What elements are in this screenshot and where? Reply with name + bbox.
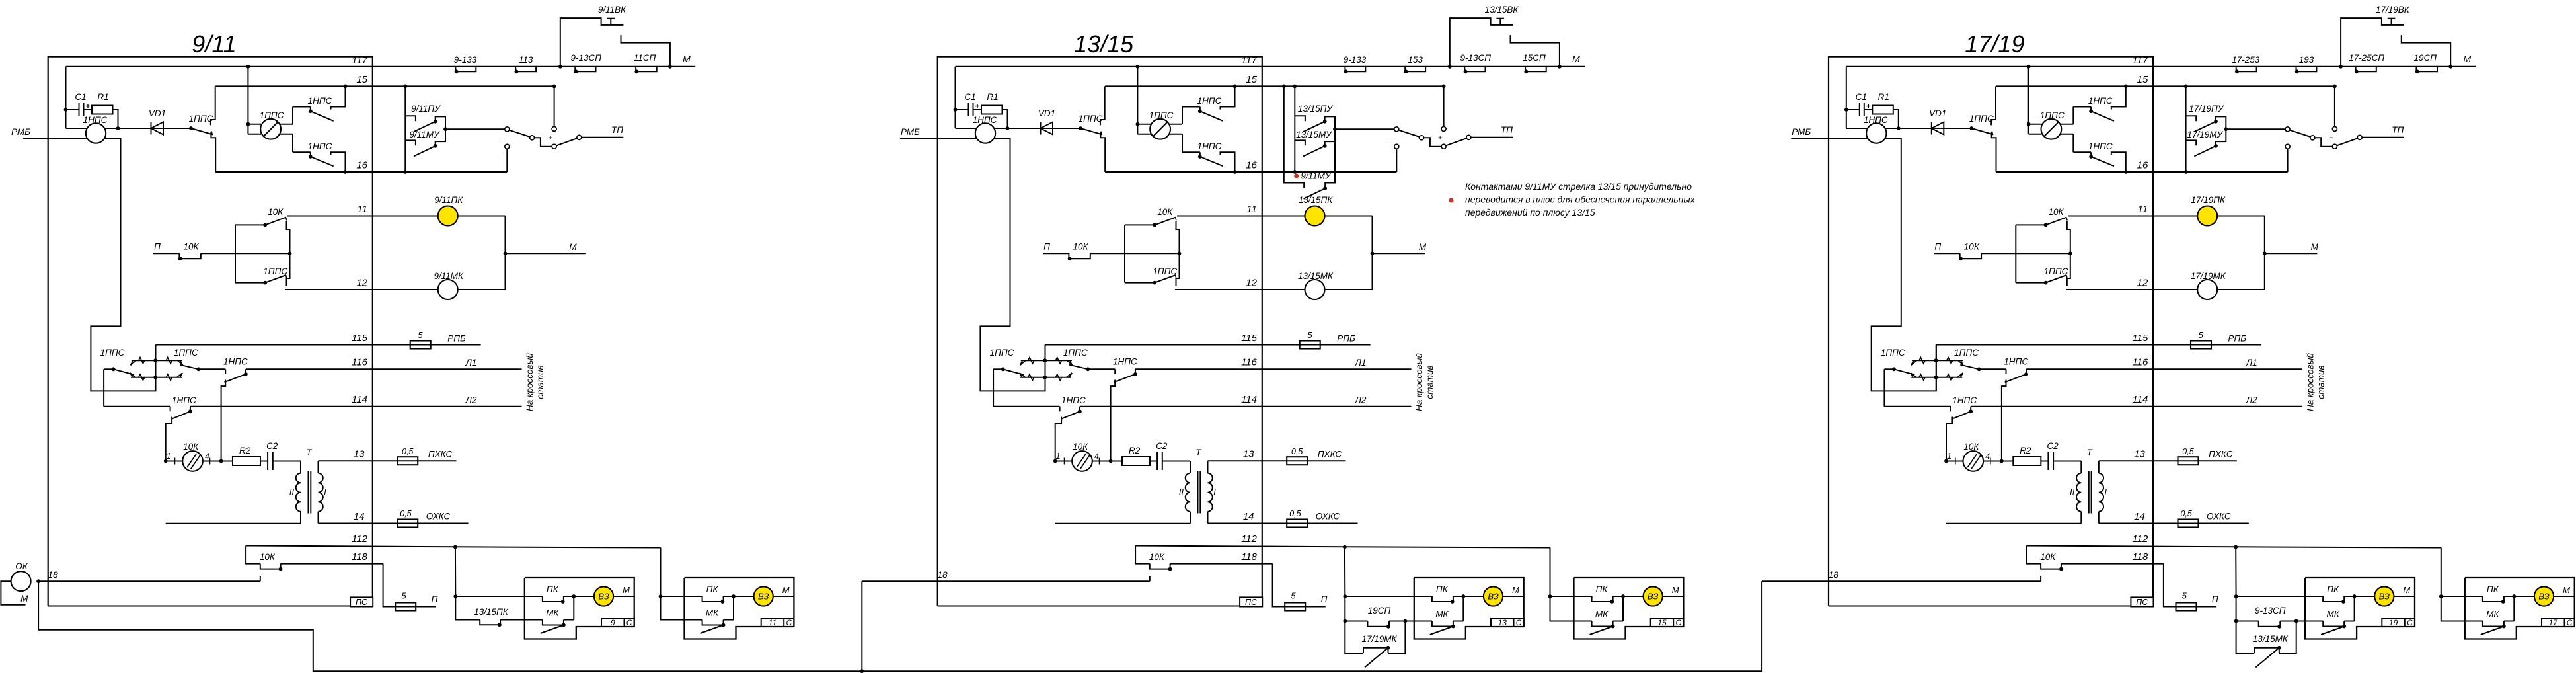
svg-text:15: 15	[1657, 618, 1667, 627]
svg-text:118: 118	[2132, 551, 2148, 563]
wire VK branch 13/15	[1450, 18, 1513, 67]
relay block В3 15 13/15 coil	[1623, 596, 1644, 597]
contact 1ППС crossing lower 13/15	[1020, 377, 1071, 378]
relay 13/15МК 13/15	[1305, 280, 1325, 299]
svg-text:С1: С1	[75, 92, 86, 102]
svg-text:9/11: 9/11	[192, 30, 236, 58]
svg-text:114: 114	[2132, 394, 2148, 405]
switch blade plus 9/11	[556, 138, 577, 145]
resistor R1 13/15	[981, 106, 1003, 114]
wire VK branch 2 17/19	[2402, 35, 2450, 67]
svg-text:0,5: 0,5	[400, 509, 411, 518]
svg-text:М: М	[20, 594, 28, 604]
svg-text:12: 12	[2137, 278, 2148, 289]
svg-text:112: 112	[2132, 534, 2148, 545]
contact 9/11МУ forced	[1295, 183, 1304, 188]
contact 1НПС lower 17/19	[2073, 151, 2091, 153]
relay block В3 15 13/15 ПК contact	[1574, 596, 1592, 597]
svg-text:РПБ: РПБ	[447, 334, 466, 344]
contact 9-13СП 13/15	[1464, 67, 1485, 72]
relay 17/19МК 17/19	[2197, 280, 2217, 299]
wire primary bottom 13/15	[1055, 523, 1190, 524]
svg-text:РМБ: РМБ	[901, 127, 920, 137]
wire bottom interconnect	[38, 581, 1762, 671]
fuse 0,5 ПХКС 9/11	[397, 457, 418, 465]
wire line 118 17/19	[2061, 563, 2164, 565]
wire box2 МК feed 17/19	[2441, 596, 2465, 621]
wire VK branch 2 13/15	[1511, 35, 1560, 67]
svg-text:9-133: 9-133	[1344, 55, 1367, 65]
contact 1ППС crossing upper 9/11	[132, 360, 182, 361]
svg-text:1НПС: 1НПС	[1197, 141, 1222, 151]
diode VD1 17/19	[1899, 128, 1972, 129]
svg-text:I: I	[1213, 487, 1216, 496]
contact 1НПС lower 13/15	[1182, 151, 1200, 153]
svg-text:1ППС: 1ППС	[1063, 348, 1088, 358]
svg-text:10К: 10К	[183, 442, 199, 452]
svg-text:М: М	[782, 585, 790, 595]
svg-text:R1: R1	[97, 92, 108, 102]
svg-text:R2: R2	[1129, 446, 1141, 455]
fuse 5 РПБ 17/19	[2191, 341, 2211, 349]
relay block В3 11 9/11 МК contact	[685, 619, 702, 621]
svg-text:VD1: VD1	[1929, 108, 1946, 118]
relay block В3 13 13/15 ПК contact	[1414, 596, 1432, 597]
relay 9/11МК 9/11	[438, 280, 458, 299]
contact 1НПС on line 114 9/11	[170, 407, 171, 412]
contact 1ППС crossing upper 13/15	[1021, 360, 1072, 361]
svg-text:13/15ПК: 13/15ПК	[1299, 195, 1334, 205]
contact 193 17/19	[2296, 67, 2317, 72]
svg-text:1ППС: 1ППС	[189, 114, 213, 124]
svg-text:17/19МУ: 17/19МУ	[2187, 130, 2223, 139]
wire motor line 17/19	[1946, 461, 1963, 462]
svg-text:193: 193	[2299, 55, 2314, 65]
svg-text:12: 12	[356, 278, 367, 289]
svg-text:9-13СП: 9-13СП	[2255, 606, 2286, 615]
contact 10К to line11 9/11	[235, 224, 265, 225]
svg-text:II: II	[1179, 487, 1184, 496]
svg-text:М: М	[1572, 54, 1580, 64]
svg-text:ВЗ: ВЗ	[758, 592, 769, 602]
contact 1НПС on line 116 9/11	[225, 369, 226, 374]
wire line 18 13/15	[862, 580, 1150, 582]
wire zigzag column 13/15	[1045, 345, 1046, 391]
wire ПУ-МУ common 17/19	[2216, 116, 2226, 145]
wire left pivot 9/11	[104, 368, 114, 370]
fuse 5 П 17/19	[2176, 603, 2197, 611]
svg-text:15: 15	[2137, 74, 2148, 85]
svg-text:ПС: ПС	[1245, 598, 1258, 607]
svg-text:15: 15	[1246, 74, 1257, 85]
svg-text:1НПС: 1НПС	[2088, 96, 2113, 106]
svg-text:П: П	[1043, 242, 1050, 252]
svg-text:М: М	[569, 242, 577, 252]
wire extra МУ riser	[1284, 86, 1295, 182]
svg-text:ОХКС: ОХКС	[2207, 512, 2231, 522]
svg-text:9/11МУ: 9/11МУ	[409, 130, 440, 139]
wire МК feed 9/11	[455, 596, 480, 620]
wire M-return 17/19	[1829, 606, 2131, 607]
wire to minus terminal 9/11	[445, 128, 505, 130]
svg-text:МК: МК	[2326, 610, 2339, 619]
wire ПК feed 13/15	[1345, 596, 1414, 597]
wire minus lower 13/15	[1396, 149, 1397, 172]
wire line 115 9/11	[156, 344, 481, 346]
svg-text:переводится в плюс для обеспеч: переводится в плюс для обеспечения парал…	[1465, 194, 1696, 205]
motor 10К 17/19	[1963, 451, 1984, 471]
wire plus riser 9/11	[554, 86, 555, 126]
svg-text:–: –	[500, 132, 506, 142]
svg-text:13/15МУ: 13/15МУ	[1296, 130, 1332, 139]
wire line 11 9/11	[287, 216, 506, 217]
svg-text:9/11МК: 9/11МК	[434, 271, 464, 281]
node junction 18	[36, 579, 40, 583]
svg-text:10К: 10К	[1073, 242, 1089, 252]
terminal F 9/11	[577, 135, 582, 139]
svg-text:118: 118	[1241, 551, 1258, 563]
svg-text:17: 17	[2549, 618, 2559, 627]
svg-text:17/19ПУ: 17/19ПУ	[2189, 104, 2224, 114]
wire box feeder 17/19	[2235, 547, 2236, 596]
button 13/15ВК 13/15	[1497, 18, 1505, 19]
wire line 112 9/11	[246, 546, 660, 548]
wire line 118 13/15	[1170, 563, 1273, 565]
contact 153 13/15	[1405, 67, 1425, 72]
svg-text:11: 11	[2138, 204, 2148, 215]
terminal F 17/19	[2357, 135, 2362, 139]
relay 13/15ПК 13/15	[1305, 206, 1325, 226]
svg-text:116: 116	[2132, 357, 2148, 368]
contact 13/15МК 17/19	[2254, 648, 2279, 653]
wire frame 17/19	[1829, 57, 2153, 606]
svg-text:М: М	[2311, 242, 2319, 252]
svg-text:ПК: ПК	[706, 584, 719, 594]
svg-text:1ППС: 1ППС	[100, 348, 125, 358]
contact 9-133 9/11	[455, 67, 476, 72]
svg-text:10К: 10К	[2040, 552, 2056, 562]
wire zigzag column 9/11	[155, 345, 157, 391]
svg-text:1ППС: 1ППС	[1153, 266, 1177, 276]
svg-text:На кроссовый: На кроссовый	[1414, 353, 1424, 411]
wire VK branch 17/19	[2341, 18, 2404, 67]
svg-text:9/11ВК: 9/11ВК	[598, 5, 626, 15]
contact 1ППС to line12 17/19	[2016, 282, 2045, 284]
svg-text:1ППС: 1ППС	[1149, 110, 1174, 120]
wire right pivot 13/15	[1069, 365, 1088, 370]
svg-text:VD1: VD1	[149, 108, 166, 118]
svg-text:ВЗ: ВЗ	[598, 592, 609, 602]
relay block В3 9 9/11 ПК contact	[525, 596, 543, 597]
svg-text:16: 16	[1246, 160, 1257, 171]
svg-text:10К: 10К	[1157, 207, 1173, 217]
relay 9/11ПК 9/11	[438, 206, 458, 226]
contact 10К to line11 17/19	[2016, 224, 2045, 225]
svg-text:ВЗ: ВЗ	[1488, 592, 1498, 602]
svg-text:153: 153	[1408, 55, 1423, 65]
svg-text:П: П	[1321, 594, 1328, 604]
svg-text:10К: 10К	[2049, 207, 2065, 217]
svg-text:ПС: ПС	[2136, 598, 2148, 607]
transformer T 17/19	[2080, 461, 2082, 473]
svg-text:С: С	[786, 618, 792, 627]
wire line 14 17/19	[2099, 523, 2249, 524]
wire МК feed right 17/19	[2280, 621, 2305, 622]
wire C1 riser 17/19	[1846, 67, 1847, 128]
wire box2 МК feed 13/15	[1550, 596, 1574, 621]
contact 17/19МК 13/15	[1363, 648, 1388, 653]
svg-text:1ППС: 1ППС	[2044, 266, 2068, 276]
capacitor C2 17/19	[2041, 461, 2048, 462]
svg-text:I: I	[324, 487, 326, 496]
contact 10К on 118 9/11	[260, 564, 281, 569]
wire to minus terminal 17/19	[2226, 128, 2285, 130]
svg-text:1НПС: 1НПС	[308, 141, 332, 151]
svg-text:М: М	[2403, 585, 2410, 595]
capacitor C1 9/11	[79, 103, 80, 116]
svg-text:17-253: 17-253	[2232, 55, 2260, 65]
svg-text:1ППС: 1ППС	[260, 110, 284, 120]
contact 1НПС upper 13/15	[1182, 106, 1200, 108]
svg-text:1НПС: 1НПС	[308, 96, 332, 106]
wire line 15 13/15	[1105, 85, 1443, 87]
svg-text:114: 114	[1241, 394, 1257, 405]
wire line 112 17/19	[2026, 546, 2441, 548]
svg-text:5: 5	[401, 591, 406, 601]
svg-text:VD1: VD1	[1038, 108, 1055, 118]
svg-text:17/19МК: 17/19МК	[1362, 634, 1398, 644]
fuse 5 РПБ 9/11	[410, 341, 431, 349]
relay block В3 17 17/19 cell	[2542, 619, 2575, 627]
terminal E 9/11	[552, 144, 556, 149]
wire МК feed 13/15	[1345, 596, 1367, 621]
relay block В3 9 9/11 outline	[525, 578, 634, 639]
switch blade plus 17/19	[2337, 138, 2357, 145]
svg-text:На кроссовый: На кроссовый	[2305, 353, 2315, 411]
contact 13/15ПК 9/11	[480, 620, 500, 625]
svg-text:13/15ПК: 13/15ПК	[474, 607, 509, 617]
svg-text:РМБ: РМБ	[11, 127, 30, 137]
svg-text:1НПС: 1НПС	[83, 115, 108, 125]
svg-text:1НПС: 1НПС	[1113, 357, 1137, 367]
wire box2 ПК feed 17/19	[2441, 596, 2465, 597]
wire РМБ descender 17/19	[1872, 138, 1936, 391]
relay block В3 9 9/11 cell	[601, 619, 634, 627]
switch blade minus 17/19	[2290, 130, 2311, 137]
contact 1ППС after VD1 9/11	[189, 126, 193, 130]
svg-text:13/15ВК: 13/15ВК	[1485, 5, 1519, 15]
contact 1ППС to line12 13/15	[1125, 282, 1155, 284]
svg-text:R2: R2	[239, 446, 251, 455]
fuse 0,5 ПХКС 17/19	[2178, 457, 2199, 465]
svg-text:0,5: 0,5	[402, 447, 413, 456]
switch blade plus 13/15	[1446, 138, 1466, 145]
svg-text:1НПС: 1НПС	[1197, 96, 1222, 106]
svg-text:0,5: 0,5	[2182, 447, 2193, 456]
fuse 0,5 ОХКС 9/11	[397, 520, 418, 528]
svg-text:4: 4	[1094, 452, 1099, 461]
svg-text:РПБ: РПБ	[2228, 334, 2247, 344]
svg-text:С: С	[2407, 618, 2413, 627]
box ПС 17/19	[2131, 597, 2153, 606]
svg-text:+: +	[2329, 133, 2333, 142]
relay block В3 11 9/11 ПК contact	[685, 596, 702, 597]
resistor R2 17/19	[2013, 457, 2041, 465]
svg-text:С1: С1	[1856, 92, 1867, 102]
svg-text:10К: 10К	[268, 207, 284, 217]
svg-text:18: 18	[937, 569, 948, 580]
wire line 112 13/15	[1135, 546, 1550, 548]
resistor R2 9/11	[233, 457, 260, 465]
terminal minus 13/15	[1394, 127, 1399, 132]
svg-text:11: 11	[357, 204, 367, 215]
svg-text:1ППС: 1ППС	[1954, 348, 1979, 358]
svg-text:1ППС: 1ППС	[990, 348, 1014, 358]
svg-text:116: 116	[352, 357, 368, 368]
svg-text:II: II	[289, 487, 295, 496]
button 17/19ВК 17/19	[2388, 18, 2396, 19]
svg-text:1: 1	[1056, 452, 1061, 461]
svg-text:С2: С2	[1156, 441, 1168, 451]
contact 113 9/11	[515, 67, 536, 72]
contact 11СП 9/11	[636, 67, 657, 72]
wire line 115 13/15	[1045, 344, 1371, 346]
svg-text:Л2: Л2	[2246, 395, 2257, 405]
svg-text:ВЗ: ВЗ	[2538, 592, 2549, 602]
wire РМБ descender 13/15	[980, 138, 1045, 391]
svg-text:1НПС: 1НПС	[1952, 395, 1977, 405]
svg-text:13/15МК: 13/15МК	[1298, 271, 1334, 281]
wire M-return 13/15	[938, 606, 1240, 607]
wire minus lower 9/11	[506, 149, 508, 172]
svg-text:10К: 10К	[1963, 442, 1979, 452]
svg-text:0,5: 0,5	[1291, 447, 1303, 456]
fuse 0,5 ПХКС 13/15	[1287, 457, 1307, 465]
svg-text:13: 13	[354, 449, 365, 460]
wire 112 drop 13/15	[1135, 546, 1150, 564]
wire line 11 13/15	[1177, 216, 1373, 217]
svg-text:115: 115	[1241, 333, 1258, 344]
svg-text:Л1: Л1	[1355, 358, 1367, 368]
contact 15СП 13/15	[1525, 67, 1546, 72]
svg-text:5: 5	[1291, 591, 1296, 601]
svg-text:1ППС: 1ППС	[1079, 114, 1103, 124]
contact 10К on 118 17/19	[2041, 564, 2061, 569]
svg-text:1: 1	[1947, 452, 1951, 461]
svg-text:15СП: 15СП	[1523, 53, 1546, 63]
wire left pivot 17/19	[1884, 368, 1894, 370]
svg-text:На кроссовый: На кроссовый	[525, 353, 535, 411]
wire middle column 9/11	[287, 221, 290, 286]
relay 1НПС coil 17/19	[1846, 128, 1899, 129]
svg-text:статив: статив	[1425, 365, 1435, 399]
wire line 117 9/11	[66, 66, 696, 67]
wire box feeder 9/11	[455, 547, 456, 596]
svg-text:ОХКС: ОХКС	[426, 512, 451, 522]
wire line 116 13/15	[1135, 368, 1412, 370]
relay block В3 17 17/19 outline	[2465, 578, 2575, 639]
svg-text:9-13СП: 9-13СП	[571, 53, 602, 63]
wire parallel branch right 13/15	[1388, 621, 1406, 654]
relay 17/19ПК 17/19	[2197, 206, 2217, 226]
svg-text:10К: 10К	[1073, 442, 1088, 452]
contact 10К to line11 13/15	[1125, 224, 1155, 225]
svg-text:1НПС: 1НПС	[172, 395, 196, 405]
svg-text:0,5: 0,5	[1289, 509, 1301, 518]
svg-text:М: М	[683, 54, 691, 64]
wire C1 riser 13/15	[955, 67, 956, 128]
relay block В3 11 9/11 coil	[734, 596, 754, 597]
svg-text:МК: МК	[706, 608, 719, 618]
svg-text:112: 112	[352, 534, 368, 545]
wire line 18 17/19	[1762, 580, 2041, 582]
wire box2 ПК feed 13/15	[1550, 596, 1574, 597]
relay block В3 17 17/19 МК contact	[2465, 621, 2483, 622]
relay 1ППС coil 13/15	[1137, 124, 1151, 125]
contact 1НПС upper 9/11	[293, 106, 311, 108]
relay block В3 15 13/15 МК contact	[1574, 621, 1592, 622]
capacitor C2 9/11	[260, 461, 268, 462]
relay ОК	[11, 571, 31, 591]
svg-text:0,5: 0,5	[2181, 509, 2192, 518]
relay block В3 13 13/15 МК contact	[1414, 621, 1432, 622]
svg-text:1ППС: 1ППС	[2040, 110, 2065, 120]
wire middle column 17/19	[2067, 221, 2070, 286]
resistor R1 17/19	[1872, 106, 1893, 114]
wire line 16 13/15	[1105, 171, 1396, 173]
wire motor out 17/19	[1983, 461, 2013, 462]
svg-text:115: 115	[2132, 333, 2148, 344]
wire line 11 17/19	[2068, 216, 2265, 217]
svg-text:С2: С2	[266, 441, 278, 451]
svg-text:R2: R2	[2020, 446, 2031, 455]
svg-text:1НПС: 1НПС	[223, 357, 248, 367]
svg-text:ПК: ПК	[2327, 584, 2339, 594]
wire ПУ-МУ common 9/11	[436, 116, 445, 145]
svg-text:РМБ: РМБ	[1792, 127, 1811, 137]
contact 1НПС on line 114 17/19	[1950, 407, 1951, 412]
wire motor out 9/11	[203, 461, 233, 462]
svg-text:14: 14	[2134, 511, 2145, 522]
contact 19СП 13/15	[1367, 621, 1389, 627]
wire parallel branch 17/19	[2236, 621, 2255, 654]
svg-text:ВЗ: ВЗ	[2379, 592, 2390, 602]
terminal mid 13/15	[1420, 136, 1424, 140]
terminal E 13/15	[1441, 144, 1446, 149]
svg-text:16: 16	[356, 160, 367, 171]
wire line 15 9/11	[215, 85, 554, 87]
wire to minus terminal 13/15	[1335, 128, 1394, 130]
wire line 114 left 9/11	[104, 406, 170, 407]
wire 1ППС coil riser 13/15	[1137, 67, 1138, 134]
wire line 14 9/11	[319, 523, 469, 524]
relay block В3 17 17/19 coil	[2514, 596, 2534, 597]
motor 10К 9/11	[182, 451, 203, 471]
contact 10К on П 9/11	[153, 253, 179, 254]
svg-text:112: 112	[1241, 534, 1258, 545]
note bullet	[1449, 198, 1453, 202]
svg-text:16: 16	[2137, 160, 2148, 171]
wire motor line 13/15	[1055, 461, 1073, 462]
svg-text:П: П	[2212, 594, 2218, 604]
wire minus lower 17/19	[2287, 149, 2289, 172]
svg-text:17-25СП: 17-25СП	[2349, 53, 2384, 63]
svg-text:13: 13	[1498, 618, 1507, 627]
wire motor out 13/15	[1092, 461, 1122, 462]
contact 1ППС crossing lower 9/11	[131, 377, 182, 378]
wire 112 drop 17/19	[2026, 546, 2041, 564]
wire riser to 13/15 line 18	[861, 581, 862, 671]
